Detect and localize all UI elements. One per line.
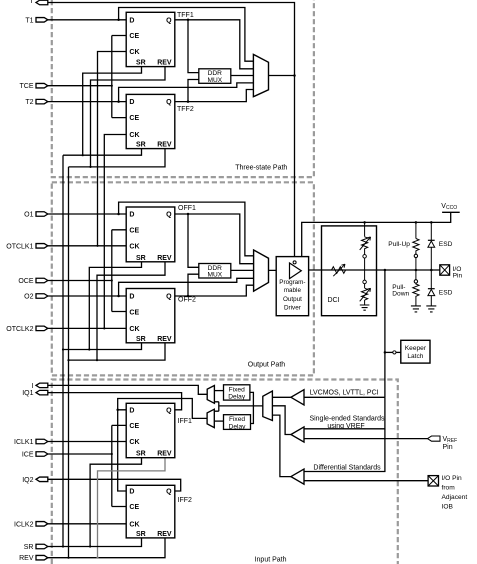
- wire TFF1 Q to DDR mux in1: [188, 20, 199, 73]
- wire OFF1 Q to out mux: [175, 214, 254, 264]
- junction TCE CE: [111, 85, 113, 87]
- wire ICLK2 to IFF2 CK: [48, 523, 126, 525]
- svg-text:CK: CK: [129, 243, 139, 250]
- wire TFF1 Q to mux: [175, 20, 254, 69]
- wire IFF1 REV gray: [98, 458, 166, 558]
- I/O pin pad symbol: [440, 265, 450, 275]
- pull-up resistor: [413, 222, 419, 270]
- pull-down resistor: [413, 270, 419, 306]
- wire OTCLK2 vertical to TFF2 CK: [104, 135, 126, 329]
- svg-text:REV: REV: [19, 555, 34, 562]
- wire I output from mux A: [48, 385, 207, 394]
- svg-text:ESD: ESD: [439, 290, 453, 297]
- svg-text:using VREF: using VREF: [327, 423, 364, 430]
- wire DDR mux out output: [231, 269, 254, 271]
- port I: [36, 383, 48, 388]
- svg-text:T2: T2: [25, 99, 33, 106]
- junction pad wire pull column: [415, 269, 418, 272]
- svg-text:OFF2: OFF2: [178, 297, 196, 304]
- wire VREF line: [304, 438, 428, 440]
- svg-text:Latch: Latch: [407, 353, 423, 360]
- wire SR net three-state: [63, 149, 142, 156]
- svg-text:D: D: [129, 294, 134, 301]
- svg-text:REV: REV: [157, 451, 172, 458]
- svg-text:Differential Standards: Differential Standards: [313, 464, 381, 471]
- svg-text:CK: CK: [129, 326, 139, 333]
- junction rail ESD: [430, 221, 433, 224]
- svg-text:T1: T1: [25, 17, 33, 24]
- mux output path: [254, 250, 269, 291]
- svg-text:IFF1: IFF1: [178, 418, 192, 425]
- svg-text:SR: SR: [136, 142, 146, 149]
- junction OFF1 REV on REV net: [96, 359, 98, 361]
- svg-text:Q: Q: [166, 17, 172, 24]
- ground pull-down: [411, 306, 421, 312]
- svg-text:SR: SR: [136, 336, 146, 343]
- svg-text:TFF1: TFF1: [177, 12, 194, 19]
- wire OCE vertical to OFF CE pins: [112, 230, 126, 312]
- wire O1 to OFF1 D: [48, 213, 126, 215]
- DCI upper variable resistor R-dci1: [360, 222, 371, 270]
- svg-text:Q: Q: [166, 489, 172, 496]
- svg-text:D: D: [129, 212, 134, 219]
- DDR MUX three-state: [199, 69, 231, 84]
- junction ICE CE: [111, 453, 113, 455]
- wire T1 to TFF1 D: [48, 19, 126, 21]
- port T1: [36, 18, 48, 23]
- junction T with mux output: [293, 74, 296, 77]
- programmable output driver box U1: [276, 257, 308, 316]
- svg-text:TCE: TCE: [20, 83, 34, 90]
- mux B input delay select: [207, 409, 214, 427]
- port IQ1: [36, 390, 48, 395]
- junction OFF1 Q: [187, 213, 190, 216]
- wire ICE: [48, 453, 112, 455]
- svg-text:ICLK1: ICLK1: [14, 439, 34, 446]
- DDR MUX output path: [199, 264, 231, 279]
- flip-flop OFF1: [126, 207, 175, 262]
- wire mux B output to IFF D pins: [118, 399, 207, 492]
- wire OCE: [48, 280, 112, 282]
- wire TFF1 REV: [91, 67, 166, 167]
- svg-text:O1: O1: [24, 212, 33, 219]
- svg-text:Delay: Delay: [229, 423, 247, 430]
- svg-text:OTCLK1: OTCLK1: [6, 243, 33, 250]
- junction TFF1 SR on SR net: [82, 154, 84, 156]
- svg-text:Driver: Driver: [284, 304, 301, 311]
- VREF pin symbol: [428, 436, 441, 441]
- wire ICE vertical to IFF CE pins: [112, 425, 126, 506]
- wire REV net three-state: [69, 149, 166, 167]
- wire OFF1 SR: [89, 262, 141, 350]
- svg-text:SR: SR: [136, 60, 146, 67]
- wire buffer3 out to mux C: [272, 415, 291, 477]
- port O2: [36, 294, 48, 299]
- svg-text:OFF1: OFF1: [178, 205, 196, 212]
- wire IQ1 from IFF1 Q: [48, 393, 182, 410]
- wire OTCLK1 vertical to TFF1 CK: [98, 52, 127, 246]
- svg-text:Program-: Program-: [279, 279, 305, 286]
- svg-text:CE: CE: [129, 227, 139, 234]
- wire I/O line driver to pin: [309, 269, 440, 271]
- wire TFF2 Q to mux: [175, 90, 254, 102]
- wire T1 bypass to mux: [119, 8, 254, 62]
- wire adjacent pin to buffer3: [304, 480, 428, 482]
- wire direct to mux A: [214, 402, 219, 411]
- svg-text:CE: CE: [129, 423, 139, 430]
- svg-text:Down: Down: [392, 291, 409, 298]
- junction OTCLK1 CK1: [96, 245, 98, 247]
- svg-text:SR: SR: [136, 451, 146, 458]
- wire T2 bypass to mux: [119, 83, 254, 102]
- svg-text:D: D: [129, 489, 134, 496]
- junction REV global on REV port line: [67, 557, 69, 559]
- wire TCE: [48, 85, 112, 87]
- wire OTCLK2 to OFF2 CK: [48, 327, 126, 329]
- svg-text:CK: CK: [129, 439, 139, 446]
- wire IFF1 SR: [90, 458, 141, 547]
- wire OFF2 Q to DDR mux out in2: [188, 274, 199, 296]
- fixed delay box 1: [224, 385, 250, 401]
- junction IFF1 REV on REV net: [96, 557, 98, 559]
- svg-text:TFF2: TFF2: [177, 106, 194, 113]
- wire REV global vertical: [68, 167, 70, 558]
- junction SR global on SR port line: [62, 545, 64, 547]
- port OTCLK2: [36, 326, 48, 331]
- ESD diode lower D2: [428, 270, 435, 306]
- ESD diode upper D1: [428, 222, 435, 270]
- wire SR global vertical: [62, 155, 64, 546]
- svg-text:CK: CK: [129, 49, 139, 56]
- svg-text:REV: REV: [157, 336, 172, 343]
- junction pad wire input tap: [384, 269, 387, 272]
- wire IQ2 from IFF2 Q: [48, 479, 181, 491]
- flip-flop TFF1: [126, 12, 175, 66]
- svg-text:Output: Output: [283, 296, 302, 303]
- svg-text:Pin: Pin: [443, 444, 453, 451]
- wire T2 to TFF2 D: [48, 101, 126, 103]
- port SR: [36, 544, 48, 549]
- svg-text:LVCMOS, LVTTL, PCI: LVCMOS, LVTTL, PCI: [310, 389, 379, 396]
- wire fixed delay 2 output: [214, 420, 223, 422]
- wire TFF2 Q to DDR mux in2: [188, 80, 199, 102]
- svg-text:T: T: [29, 0, 34, 5]
- wire mux C output: [219, 405, 263, 407]
- wire input node to buffer1: [304, 396, 385, 398]
- wire out mux output to driver: [269, 269, 290, 271]
- junction IFF1 SR on SR net: [89, 545, 91, 547]
- port labels: [6, 0, 34, 562]
- mux C standards select: [263, 391, 273, 421]
- svg-text:OCE: OCE: [18, 278, 34, 285]
- wire O2 bypass to out mux: [119, 278, 254, 296]
- svg-text:D: D: [129, 17, 134, 24]
- svg-text:Q: Q: [166, 212, 172, 219]
- wire REV net output path: [69, 343, 166, 360]
- junction OFF1 SR on SR net: [88, 348, 90, 350]
- wire REV port to IFF2 REV: [48, 538, 165, 558]
- junction keeper latch tap: [384, 351, 387, 354]
- DCI box: [322, 226, 377, 316]
- svg-text:from: from: [442, 485, 456, 492]
- wire buffer1 out to mux C: [272, 396, 291, 398]
- junction O2 bypass: [117, 295, 120, 298]
- svg-text:CE: CE: [129, 309, 139, 316]
- mux three-state: [253, 54, 268, 96]
- wire OFF1 Q to DDR mux out in1: [188, 214, 199, 267]
- junction TFF1 Q: [187, 19, 190, 22]
- buffer LVCMOS: [291, 390, 304, 405]
- svg-text:Pin: Pin: [453, 273, 463, 280]
- svg-text:IFF2: IFF2: [178, 497, 192, 504]
- port T2: [36, 99, 48, 104]
- svg-text:Output Path: Output Path: [248, 362, 285, 369]
- junction OTCLK2 CK2: [103, 327, 105, 329]
- svg-text:SR: SR: [24, 544, 34, 551]
- port ICE: [36, 452, 48, 457]
- port TCE: [36, 83, 48, 88]
- svg-text:ESD: ESD: [439, 241, 453, 248]
- svg-text:IQ1: IQ1: [22, 390, 33, 397]
- wire input node to buffer2: [304, 397, 385, 429]
- wire T top line to driver: [48, 3, 295, 261]
- svg-text:REV: REV: [157, 142, 172, 149]
- input path dashed box: [52, 380, 398, 564]
- wire buffer2 out to mux C: [272, 406, 291, 435]
- junction pad wire ESD column: [430, 269, 433, 272]
- svg-text:CE: CE: [129, 115, 139, 122]
- fixed delay box 2: [224, 415, 251, 431]
- junction OCE CE: [111, 279, 113, 281]
- wire fixed delay 1 output: [214, 390, 223, 392]
- svg-text:CE: CE: [129, 504, 139, 511]
- svg-text:mable: mable: [284, 287, 302, 294]
- svg-text:Adjacent: Adjacent: [442, 494, 468, 501]
- port REV: [36, 555, 48, 560]
- junction SR net output: [62, 348, 64, 350]
- wire fixed delay 1 input: [250, 392, 254, 423]
- junction OFF2 Q: [187, 295, 190, 298]
- junction rail DCI: [363, 221, 366, 224]
- output driver tristate bubble: [293, 261, 296, 264]
- svg-text:Q: Q: [166, 99, 172, 106]
- svg-text:VCCO: VCCO: [441, 203, 457, 211]
- svg-text:IOB: IOB: [442, 503, 454, 510]
- flip-flop IFF1: [126, 403, 175, 457]
- svg-text:Fixed: Fixed: [229, 386, 245, 393]
- junction T1 bypass: [117, 19, 120, 22]
- svg-text:I/O Pin: I/O Pin: [442, 475, 462, 482]
- keeper latch box: [401, 340, 430, 363]
- junction O1 bypass: [117, 213, 120, 216]
- svg-text:Pull-Up: Pull-Up: [388, 241, 410, 248]
- wire input node vertical: [384, 270, 386, 397]
- I/O pin from adjacent IOB symbol: [428, 476, 438, 486]
- svg-text:IQ2: IQ2: [22, 477, 33, 484]
- keeper latch connection: [385, 351, 401, 354]
- wire TFF1 SR: [83, 67, 142, 156]
- wire input node to buffer3: [304, 429, 385, 472]
- port OCE: [36, 278, 48, 283]
- svg-text:REV: REV: [157, 531, 172, 538]
- flip-flop OFF2: [126, 289, 175, 343]
- wire ICLK1 to IFF1 CK: [48, 441, 126, 443]
- svg-text:I: I: [32, 383, 34, 390]
- svg-text:SR: SR: [136, 531, 146, 538]
- junction T2 bypass: [117, 100, 120, 103]
- port ICLK2: [36, 522, 48, 527]
- ground ESD: [426, 306, 436, 312]
- wire Vcco bar: [442, 211, 460, 213]
- svg-text:O2: O2: [24, 294, 33, 301]
- junction rail pull-up: [415, 221, 418, 224]
- svg-text:Fixed: Fixed: [229, 416, 245, 423]
- svg-text:CK: CK: [129, 521, 139, 528]
- DCI lower variable resistor R-dci2: [360, 270, 371, 305]
- svg-text:MUX: MUX: [207, 272, 222, 279]
- three-state path dashed box: [52, 0, 314, 177]
- DCI series impedance symbol: [332, 264, 346, 276]
- port ICLK1: [36, 439, 48, 444]
- output driver buffer triangle: [276, 263, 308, 279]
- svg-text:Q: Q: [166, 294, 172, 301]
- junction TFF2 Q: [187, 100, 190, 103]
- flip-flop TFF2: [126, 94, 175, 148]
- wire ts mux output: [269, 75, 295, 77]
- mux A input delay select: [207, 386, 214, 404]
- svg-text:OTCLK2: OTCLK2: [6, 326, 33, 333]
- port OTCLK1: [36, 244, 48, 249]
- svg-text:REV: REV: [157, 255, 172, 262]
- port O1: [36, 212, 48, 217]
- svg-text:Single-ended Standards: Single-ended Standards: [309, 416, 385, 423]
- wire DDR mux ts output: [231, 75, 254, 77]
- wire SR port to IFF2 SR: [48, 538, 142, 547]
- wire OFF1 REV: [97, 262, 165, 360]
- buffer single-ended VREF: [291, 427, 304, 442]
- svg-text:Keeper: Keeper: [405, 345, 427, 352]
- svg-text:D: D: [129, 99, 134, 106]
- wire Vcco rail: [302, 212, 451, 256]
- flip-flop IFF2: [126, 485, 175, 538]
- wire O1 bypass to out mux: [119, 202, 254, 256]
- junction REV net output: [67, 359, 69, 361]
- port IQ2: [36, 477, 48, 482]
- output path dashed box: [52, 182, 314, 375]
- junction IFF1 D: [116, 409, 119, 412]
- svg-text:DCI: DCI: [328, 297, 340, 304]
- svg-text:Q: Q: [166, 407, 172, 414]
- wire O2 to OFF2 D: [48, 295, 126, 297]
- svg-text:Input Path: Input Path: [255, 557, 287, 564]
- svg-text:ICLK2: ICLK2: [14, 521, 34, 528]
- svg-text:D: D: [129, 407, 134, 414]
- svg-text:CE: CE: [129, 33, 139, 40]
- wire OFF2 Q to out mux: [175, 285, 254, 296]
- svg-text:Delay: Delay: [228, 394, 246, 401]
- wire OTCLK1 to OFF1 CK: [48, 245, 126, 247]
- wire SR net output path: [63, 343, 142, 350]
- svg-text:SR: SR: [136, 255, 146, 262]
- svg-text:ICE: ICE: [22, 452, 34, 459]
- junction TFF1 REV on REV net: [89, 166, 91, 168]
- wire TCE vertical to TFF CE pins: [112, 36, 126, 118]
- ground DCI: [360, 305, 370, 310]
- buffer differential: [291, 469, 304, 484]
- svg-text:CK: CK: [129, 132, 139, 139]
- svg-text:MUX: MUX: [207, 77, 222, 84]
- svg-text:Three-state Path: Three-state Path: [235, 165, 287, 172]
- svg-text:REV: REV: [157, 60, 172, 67]
- port T: [36, 0, 48, 5]
